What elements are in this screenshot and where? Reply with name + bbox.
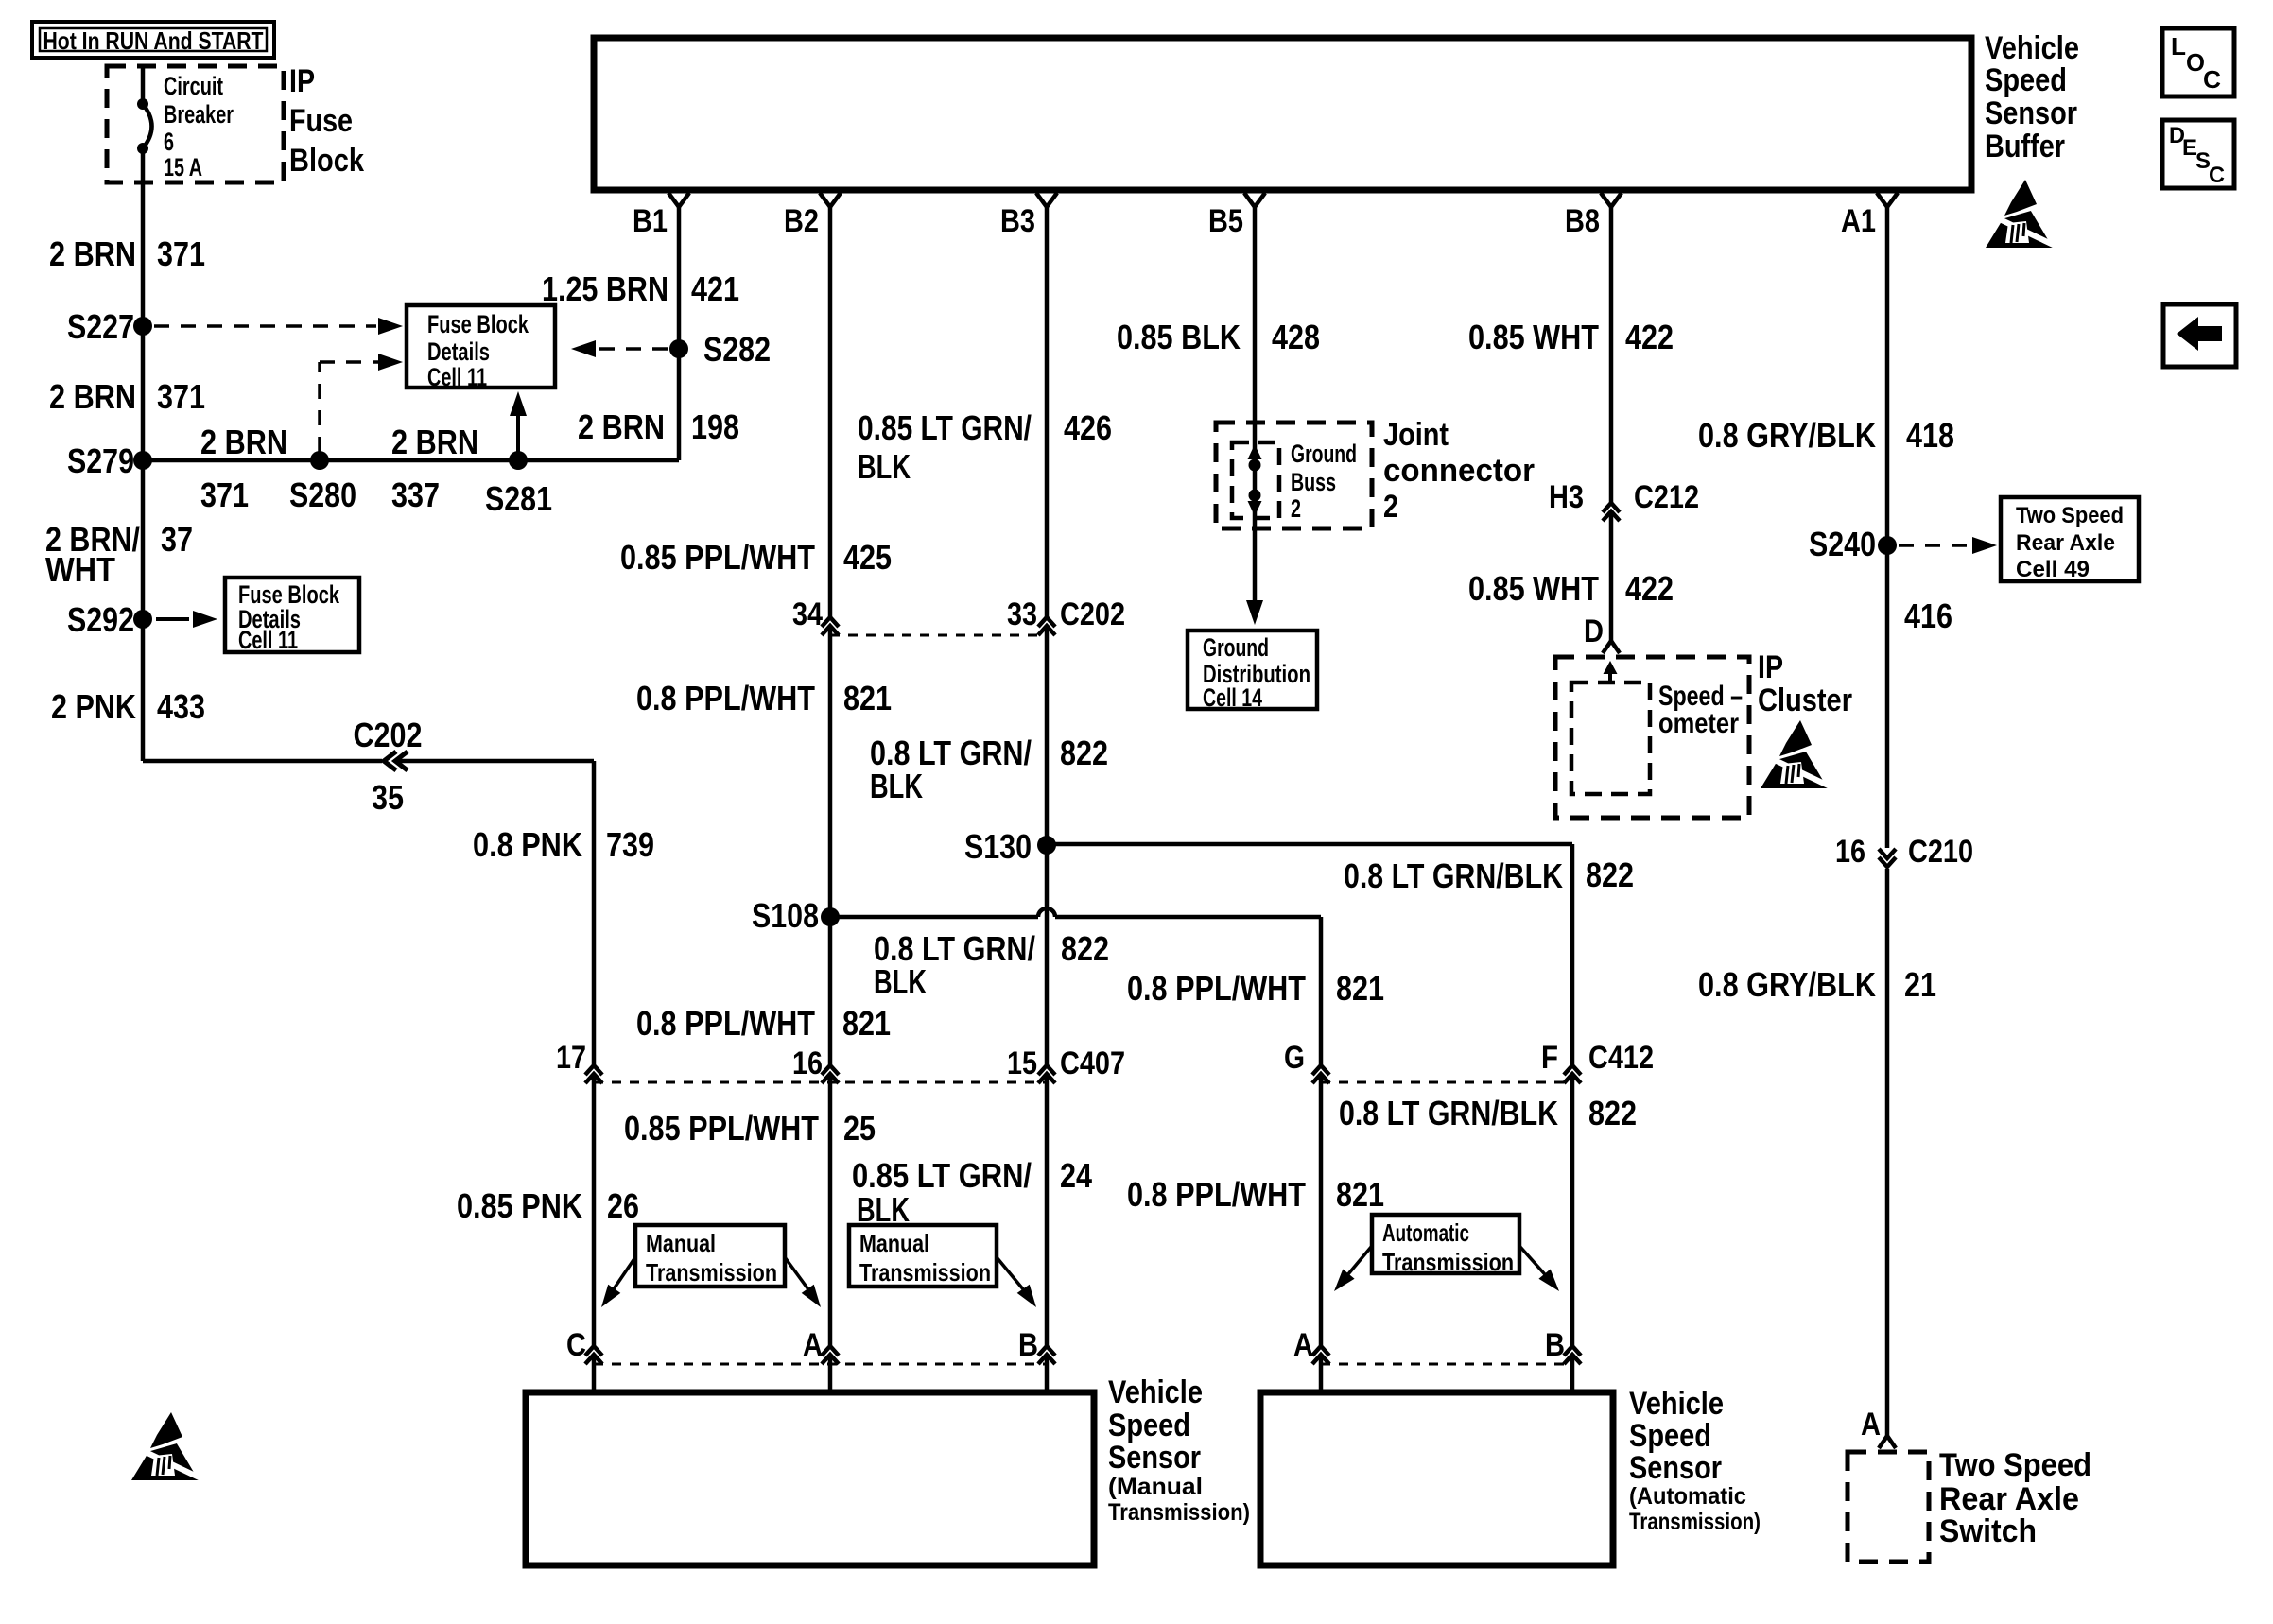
svg-text:BLK: BLK xyxy=(870,767,923,805)
connector A chevrons (auto VSS) xyxy=(1312,1346,1329,1364)
svg-text:Sensor: Sensor xyxy=(1108,1440,1201,1476)
svg-text:1.25 BRN: 1.25 BRN xyxy=(542,269,668,308)
wire into manual VSS box pin A xyxy=(828,1356,833,1392)
svg-text:Cell 11: Cell 11 xyxy=(238,626,298,654)
pin B5 fork xyxy=(1208,193,1265,239)
label 34 xyxy=(792,596,823,632)
connector A chevrons (manual VSS) xyxy=(822,1346,839,1364)
svg-text:Two Speed: Two Speed xyxy=(2016,503,2124,528)
svg-text:Cell 14: Cell 14 xyxy=(1203,683,1262,712)
label 2 PNK 433 xyxy=(51,687,205,726)
label 17 xyxy=(556,1040,586,1076)
svg-text:425: 425 xyxy=(843,538,892,577)
node S281 xyxy=(485,451,552,518)
svg-text:A: A xyxy=(1293,1327,1313,1363)
svg-text:2 BRN: 2 BRN xyxy=(49,234,136,273)
node S292 xyxy=(67,600,152,639)
svg-text:F: F xyxy=(1541,1040,1558,1076)
svg-text:198: 198 xyxy=(691,407,739,446)
box Two Speed Rear Axle Cell 49 xyxy=(2001,497,2139,581)
svg-text:822: 822 xyxy=(1061,929,1109,968)
svg-text:Ground: Ground xyxy=(1291,440,1357,468)
wire breaker to S292 run (main left vertical) xyxy=(141,148,146,761)
svg-text:S227: S227 xyxy=(67,307,134,346)
arrow right Manual box 2 to B wire xyxy=(997,1257,1043,1312)
label Vehicle Speed Sensor (Automatic Transmission) xyxy=(1629,1386,1761,1535)
pin B3 fork xyxy=(1000,193,1057,239)
box Ground Distribution Cell 14 xyxy=(1188,631,1317,709)
wire B5 vertical xyxy=(1253,207,1258,610)
wire A1 upper vertical xyxy=(1885,207,1890,848)
dashed box Ground Buss inner xyxy=(1232,442,1279,518)
svg-text:Manual: Manual xyxy=(859,1229,929,1257)
svg-text:426: 426 xyxy=(1064,408,1112,447)
box Hot In RUN And START xyxy=(32,22,274,58)
svg-text:B2: B2 xyxy=(784,203,819,239)
label 0.85 BLK 428 xyxy=(1117,318,1320,356)
speedometer arrow up xyxy=(1604,661,1618,682)
svg-text:connector: connector xyxy=(1383,453,1535,489)
svg-text:421: 421 xyxy=(691,269,739,308)
svg-text:0.85 LT GRN/: 0.85 LT GRN/ xyxy=(858,408,1032,447)
svg-text:0.8 LT GRN/BLK: 0.8 LT GRN/BLK xyxy=(1344,856,1563,895)
wire into manual VSS box pin B xyxy=(1045,1356,1050,1392)
label Manual Transmission (right) xyxy=(859,1229,991,1287)
wire A1 lower vertical xyxy=(1885,869,1890,1436)
wire B3 upper vertical xyxy=(1045,207,1050,617)
svg-text:Transmission: Transmission xyxy=(646,1258,777,1287)
svg-text:Cluster: Cluster xyxy=(1758,682,1852,718)
label 35 xyxy=(372,778,404,817)
wire 0.85 PNK 26 vertical xyxy=(592,1076,597,1345)
svg-text:822: 822 xyxy=(1586,855,1634,894)
node S240 xyxy=(1809,525,1897,563)
svg-text:S292: S292 xyxy=(67,600,134,639)
svg-text:IP: IP xyxy=(289,63,315,99)
svg-text:821: 821 xyxy=(842,1004,891,1043)
pin B1 fork xyxy=(633,193,689,239)
inline connector C202 pin 33 chevrons xyxy=(1038,617,1055,635)
ground buss dot lower xyxy=(1249,490,1261,502)
svg-text:2: 2 xyxy=(1291,494,1301,523)
dashed box IP Fuse Block xyxy=(107,66,284,182)
svg-text:2 BRN: 2 BRN xyxy=(49,377,136,416)
label G xyxy=(1284,1040,1305,1076)
label 2 BRN 371 (second) xyxy=(49,377,205,416)
svg-text:S130: S130 xyxy=(964,827,1032,866)
svg-text:Switch: Switch xyxy=(1939,1513,2037,1549)
wire S108 branch horizontal (right of hop) xyxy=(1055,917,1321,1064)
svg-text:Rear Axle: Rear Axle xyxy=(2016,530,2115,556)
svg-text:IP: IP xyxy=(1758,649,1783,685)
svg-text:C: C xyxy=(566,1327,586,1363)
svg-text:Speed: Speed xyxy=(1108,1408,1190,1443)
label 2 BRN 371 (S279-S280 span) xyxy=(200,423,287,514)
svg-text:34: 34 xyxy=(792,596,823,632)
wire S279 to B1 horizontal xyxy=(143,458,679,463)
ESD symbol (IP cluster) xyxy=(1761,720,1836,789)
svg-text:BLK: BLK xyxy=(874,962,927,1001)
svg-text:416: 416 xyxy=(1904,596,1952,635)
svg-text:Vehicle: Vehicle xyxy=(1629,1386,1724,1422)
svg-text:371: 371 xyxy=(157,234,205,273)
wire into auto VSS box pin A xyxy=(1319,1356,1324,1392)
label Fuse Block Details Cell 11 (upper) xyxy=(427,310,529,391)
wire B8 lower vertical xyxy=(1609,513,1614,641)
wire hop over B3 xyxy=(1038,908,1055,917)
label Manual Transmission (left) xyxy=(646,1229,777,1287)
label Speedometer xyxy=(1658,681,1743,739)
node S282 xyxy=(669,330,771,369)
connector C chevrons (manual VSS) xyxy=(585,1346,602,1364)
svg-text:821: 821 xyxy=(843,679,892,717)
svg-text:L: L xyxy=(2171,32,2186,60)
label 0.85 PPL/WHT 425 xyxy=(620,538,892,577)
svg-text:BLK: BLK xyxy=(858,447,911,486)
connector B chevrons (manual VSS) xyxy=(1038,1346,1055,1364)
label 2 BRN 337 (S280-S281 span) xyxy=(391,423,478,514)
box DESC xyxy=(2162,120,2234,188)
pin A1 fork xyxy=(1841,193,1898,239)
svg-text:Vehicle: Vehicle xyxy=(1108,1374,1203,1410)
svg-text:Breaker: Breaker xyxy=(164,100,234,129)
label Two Speed Rear Axle Switch xyxy=(1939,1447,2091,1549)
box back-arrow xyxy=(2163,304,2236,367)
label 0.8 LT GRN/BLK 822 (S130 branch) xyxy=(1344,855,1634,895)
svg-text:Joint: Joint xyxy=(1383,417,1449,453)
node S130 xyxy=(964,827,1056,866)
label Vehicle Speed Sensor Buffer xyxy=(1985,30,2079,164)
svg-text:21: 21 xyxy=(1904,965,1936,1004)
label 0.8 LT GRN/BLK 822 (above S130) xyxy=(870,734,1108,805)
connector B chevrons (auto VSS) xyxy=(1564,1346,1581,1364)
box Fuse Block Details Cell 11 (upper) xyxy=(407,305,555,388)
label B (manual VSS) xyxy=(1018,1327,1038,1363)
svg-text:371: 371 xyxy=(157,377,205,416)
svg-text:B: B xyxy=(1018,1327,1038,1363)
box Manual Transmission (right) xyxy=(849,1225,997,1287)
svg-text:B3: B3 xyxy=(1000,203,1035,239)
svg-text:0.85 PPL/WHT: 0.85 PPL/WHT xyxy=(624,1109,819,1148)
svg-text:2 BRN: 2 BRN xyxy=(200,423,287,461)
ground buss down arrowhead xyxy=(1248,501,1262,516)
label Ground Buss 2 xyxy=(1291,440,1357,523)
box Manual Transmission (left) xyxy=(635,1225,785,1287)
label Two Speed Rear Axle Cell 49 xyxy=(2016,503,2124,582)
node S279 xyxy=(67,441,152,480)
label C202 (35) xyxy=(354,716,423,754)
label 2 BRN 371 (upper) xyxy=(49,234,205,273)
label 0.85 PPL/WHT 25 xyxy=(624,1109,876,1148)
inline connector C212 pin H3 chevrons xyxy=(1603,503,1620,521)
label 0.8 PPL/WHT 821 (S108 branch) xyxy=(1127,969,1384,1008)
svg-text:ometer: ometer xyxy=(1658,708,1739,739)
svg-text:G: G xyxy=(1284,1040,1305,1076)
svg-text:B5: B5 xyxy=(1208,203,1243,239)
svg-text:0.8 PPL/WHT: 0.8 PPL/WHT xyxy=(636,679,815,717)
inline connector C407 pin 16 chevrons xyxy=(822,1065,839,1083)
dashed mating line C202 xyxy=(830,634,1047,637)
wire into auto VSS box pin B xyxy=(1570,1356,1575,1392)
svg-text:B: B xyxy=(1545,1327,1565,1363)
svg-text:Manual: Manual xyxy=(646,1229,716,1257)
svg-text:Two Speed: Two Speed xyxy=(1939,1447,2091,1483)
svg-text:Speed: Speed xyxy=(1985,62,2067,98)
wire G lower vertical xyxy=(1319,1076,1324,1345)
svg-text:Transmission: Transmission xyxy=(1382,1248,1514,1276)
label 0.85 LT GRN/BLK 426 xyxy=(858,408,1112,486)
svg-text:Circuit: Circuit xyxy=(164,72,223,100)
svg-text:15 A: 15 A xyxy=(164,153,202,181)
label Joint connector 2 xyxy=(1383,417,1535,525)
svg-text:822: 822 xyxy=(1588,1094,1637,1132)
label 0.8 PPL/WHT 821 (lower) xyxy=(636,1004,891,1043)
component box Vehicle Speed Sensor (Manual) xyxy=(526,1392,1094,1565)
ground buss dot upper xyxy=(1249,459,1261,472)
label IP Fuse Block xyxy=(289,63,364,179)
label 1.25 BRN 421 xyxy=(542,269,739,308)
box Automatic Transmission xyxy=(1372,1215,1519,1273)
wire from Hot box into fuse block xyxy=(141,66,146,104)
label 0.8 PNK 739 xyxy=(473,825,654,864)
label F C412 xyxy=(1541,1040,1654,1076)
svg-text:337: 337 xyxy=(391,475,440,514)
svg-text:0.8 PPL/WHT: 0.8 PPL/WHT xyxy=(1127,1175,1306,1214)
svg-text:0.8 PPL/WHT: 0.8 PPL/WHT xyxy=(1127,969,1306,1008)
wire S292 elbow to C202-35 horizontal xyxy=(143,759,594,764)
dashed box IP Cluster xyxy=(1555,657,1749,818)
svg-text:822: 822 xyxy=(1060,734,1108,772)
svg-text:H3: H3 xyxy=(1549,479,1584,515)
wire B8 upper vertical xyxy=(1609,207,1614,503)
svg-text:0.8 GRY/BLK: 0.8 GRY/BLK xyxy=(1698,416,1876,455)
inline connector C202 pin 34 chevrons xyxy=(822,617,839,635)
circuit breaker CB6 contact dots xyxy=(137,98,148,154)
svg-text:428: 428 xyxy=(1272,318,1320,356)
svg-text:2 PNK: 2 PNK xyxy=(51,687,136,726)
inline connector C407 pin 15 chevrons xyxy=(1038,1065,1055,1083)
svg-text:C412: C412 xyxy=(1588,1040,1654,1076)
inline connector C412 pin G chevrons xyxy=(1312,1065,1329,1083)
label 0.85 LT GRN/BLK 24 xyxy=(852,1156,1092,1229)
svg-text:S280: S280 xyxy=(289,475,356,514)
svg-text:739: 739 xyxy=(606,825,654,864)
label B (auto VSS) xyxy=(1545,1327,1565,1363)
label 0.85 WHT 422 (lower) xyxy=(1468,569,1674,608)
svg-text:6: 6 xyxy=(164,128,174,156)
svg-text:24: 24 xyxy=(1060,1156,1092,1195)
svg-text:0.85 WHT: 0.85 WHT xyxy=(1468,318,1599,356)
label Ground Distribution Cell 14 xyxy=(1203,633,1310,712)
svg-text:Buss: Buss xyxy=(1291,468,1336,496)
dashed box Joint connector outer xyxy=(1216,423,1372,528)
ESD symbol (buffer) xyxy=(1986,180,2061,249)
svg-text:422: 422 xyxy=(1625,318,1674,356)
svg-text:Cell 11: Cell 11 xyxy=(427,363,487,391)
svg-text:33: 33 xyxy=(1007,596,1037,632)
svg-text:Vehicle: Vehicle xyxy=(1985,30,2079,66)
pin D fork into IP cluster xyxy=(1584,613,1620,653)
svg-text:O: O xyxy=(2186,48,2205,77)
solid reference arrow S281 up to Fuse Block Details xyxy=(510,391,527,460)
box Fuse Block Details Cell 11 (lower) xyxy=(225,578,359,652)
svg-text:0.8 GRY/BLK: 0.8 GRY/BLK xyxy=(1698,965,1876,1004)
svg-text:S282: S282 xyxy=(703,330,771,369)
label 0.8 GRY/BLK 21 xyxy=(1698,965,1936,1004)
dashed mating line auto VSS A-B xyxy=(1321,1363,1572,1366)
svg-text:Block: Block xyxy=(289,143,364,179)
label Vehicle Speed Sensor (Manual Transmission) xyxy=(1108,1374,1250,1526)
wire S130 branch horizontal xyxy=(1047,844,1572,1064)
svg-text:S281: S281 xyxy=(485,479,552,518)
dashed box Speedometer xyxy=(1571,682,1650,794)
svg-text:WHT: WHT xyxy=(45,550,115,589)
label H3 C212 xyxy=(1549,479,1699,515)
wire B2 upper vertical xyxy=(828,207,833,617)
label A (auto VSS) xyxy=(1293,1327,1313,1363)
pin B8 fork xyxy=(1565,193,1622,239)
svg-text:0.85 PNK: 0.85 PNK xyxy=(457,1186,582,1225)
label 0.8 LT GRN/BLK 822 (auto) xyxy=(1339,1094,1637,1132)
inline connector C210 pin 16 chevrons xyxy=(1879,849,1896,867)
svg-text:S108: S108 xyxy=(752,896,819,935)
svg-text:A: A xyxy=(1861,1407,1881,1443)
label 0.85 WHT 422 (upper) xyxy=(1468,318,1674,356)
label 2 BRN 198 xyxy=(578,407,739,446)
label Fuse Block Details Cell 11 (lower) xyxy=(238,580,340,654)
wire B3 lower vertical xyxy=(1045,1076,1050,1345)
dashed mating line C412 xyxy=(1321,1081,1572,1084)
svg-text:Transmission: Transmission xyxy=(859,1258,991,1287)
label 16 xyxy=(792,1045,823,1081)
wire S108 branch horizontal (left of hop) xyxy=(830,915,1038,920)
svg-text:422: 422 xyxy=(1625,569,1674,608)
box LOC xyxy=(2162,28,2234,96)
arrow right Automatic box to B wire xyxy=(1519,1246,1565,1296)
arrow right Manual box to A wire xyxy=(785,1257,827,1312)
svg-text:0.8 PPL/WHT: 0.8 PPL/WHT xyxy=(636,1004,815,1043)
svg-text:Fuse: Fuse xyxy=(289,103,353,139)
svg-text:418: 418 xyxy=(1906,416,1954,455)
component box Vehicle Speed Sensor (Automatic) xyxy=(1260,1392,1613,1565)
inline connector C412 pin F chevrons xyxy=(1564,1065,1581,1083)
svg-text:C202: C202 xyxy=(354,716,423,754)
svg-text:2: 2 xyxy=(1383,489,1398,525)
svg-text:17: 17 xyxy=(556,1040,586,1076)
svg-text:Speed: Speed xyxy=(1629,1418,1711,1454)
label 0.85 PNK 26 xyxy=(457,1186,639,1225)
label A (manual VSS) xyxy=(803,1327,823,1363)
svg-text:37: 37 xyxy=(161,520,193,559)
svg-text:0.85 LT GRN/: 0.85 LT GRN/ xyxy=(852,1156,1032,1195)
svg-text:Details: Details xyxy=(427,337,490,366)
wire 0.8 PNK 739 vertical xyxy=(592,761,597,1064)
pin A fork into rear axle switch xyxy=(1861,1407,1896,1448)
svg-text:C202: C202 xyxy=(1060,596,1125,632)
svg-text:B8: B8 xyxy=(1565,203,1600,239)
dashed box Two Speed Rear Axle Switch xyxy=(1848,1452,1929,1562)
svg-text:35: 35 xyxy=(372,778,404,817)
svg-text:(Manual: (Manual xyxy=(1108,1474,1203,1500)
svg-text:S279: S279 xyxy=(67,441,134,480)
inline connector C202 pin 35 chevrons xyxy=(384,752,408,770)
svg-text:D: D xyxy=(1584,613,1604,649)
label C (manual VSS) xyxy=(566,1327,586,1363)
svg-text:S240: S240 xyxy=(1809,525,1876,563)
label Automatic Transmission xyxy=(1382,1218,1514,1276)
svg-text:0.85 BLK: 0.85 BLK xyxy=(1117,318,1241,356)
svg-text:C407: C407 xyxy=(1060,1045,1125,1081)
svg-text:Sensor: Sensor xyxy=(1629,1450,1722,1486)
svg-text:C: C xyxy=(2203,65,2221,94)
svg-text:16: 16 xyxy=(792,1045,823,1081)
label IP Cluster xyxy=(1758,649,1852,718)
dashed reference arrow S240 to Two Speed Rear Axle xyxy=(1899,537,1997,554)
label 0.8 PPL/WHT 821 (upper) xyxy=(636,679,892,717)
svg-text:821: 821 xyxy=(1336,969,1384,1008)
ground buss up arrowhead xyxy=(1248,444,1262,459)
svg-text:821: 821 xyxy=(1336,1175,1384,1214)
label 0.8 PPL/WHT 821 (auto) xyxy=(1127,1175,1384,1214)
component box Vehicle Speed Sensor Buffer xyxy=(594,38,1971,190)
svg-text:B1: B1 xyxy=(633,203,668,239)
label 16 C210 xyxy=(1835,834,1973,870)
inline connector C407 pin 17 chevrons xyxy=(585,1065,602,1083)
svg-text:Transmission): Transmission) xyxy=(1108,1499,1250,1526)
svg-text:16: 16 xyxy=(1835,834,1865,870)
svg-text:433: 433 xyxy=(157,687,205,726)
label 416 xyxy=(1904,596,1952,635)
node S108 xyxy=(752,896,840,935)
wire F lower vertical xyxy=(1570,1076,1575,1345)
wire B3 mid vertical xyxy=(1045,628,1050,1064)
svg-text:371: 371 xyxy=(200,475,249,514)
label 15 C407 xyxy=(1007,1045,1125,1081)
ESD symbol (bottom left) xyxy=(131,1412,207,1481)
node S280 xyxy=(289,451,356,514)
dashed reference arrow S227 to Fuse Block Details xyxy=(154,318,403,335)
circuit breaker CB6 arc xyxy=(143,104,152,148)
svg-text:2 BRN: 2 BRN xyxy=(391,423,478,461)
svg-text:A: A xyxy=(803,1327,823,1363)
node S227 xyxy=(67,307,152,346)
svg-text:Rear Axle: Rear Axle xyxy=(1939,1481,2079,1517)
wire B2 lower vertical xyxy=(828,1076,833,1345)
svg-text:Cell 49: Cell 49 xyxy=(2016,557,2090,582)
arrow left Manual box to C wire xyxy=(595,1257,635,1312)
wire B1 vertical xyxy=(677,207,682,460)
svg-text:C210: C210 xyxy=(1908,834,1973,870)
dashed mating line C407 xyxy=(594,1081,1047,1084)
svg-text:Ground: Ground xyxy=(1203,633,1269,662)
dashed reference arrow S282 to Fuse Block Details xyxy=(571,340,668,357)
wire into manual VSS box pin C xyxy=(592,1356,597,1392)
svg-text:0.85 PPL/WHT: 0.85 PPL/WHT xyxy=(620,538,815,577)
label 2 BRN/WHT 37 xyxy=(45,520,193,589)
svg-text:Transmission): Transmission) xyxy=(1629,1509,1761,1535)
svg-text:0.8 LT GRN/BLK: 0.8 LT GRN/BLK xyxy=(1339,1094,1558,1132)
label 33 C202 xyxy=(1007,596,1125,632)
label Circuit Breaker 6 15 A xyxy=(164,72,234,181)
svg-text:0.8 PNK: 0.8 PNK xyxy=(473,825,582,864)
wire B2 mid vertical xyxy=(828,628,833,1064)
svg-text:25: 25 xyxy=(843,1109,876,1148)
arrowhead into Ground Distribution xyxy=(1246,600,1263,625)
arrow left Automatic box to A wire xyxy=(1328,1246,1372,1296)
svg-text:0.85 WHT: 0.85 WHT xyxy=(1468,569,1599,608)
svg-text:15: 15 xyxy=(1007,1045,1037,1081)
svg-text:26: 26 xyxy=(607,1186,639,1225)
